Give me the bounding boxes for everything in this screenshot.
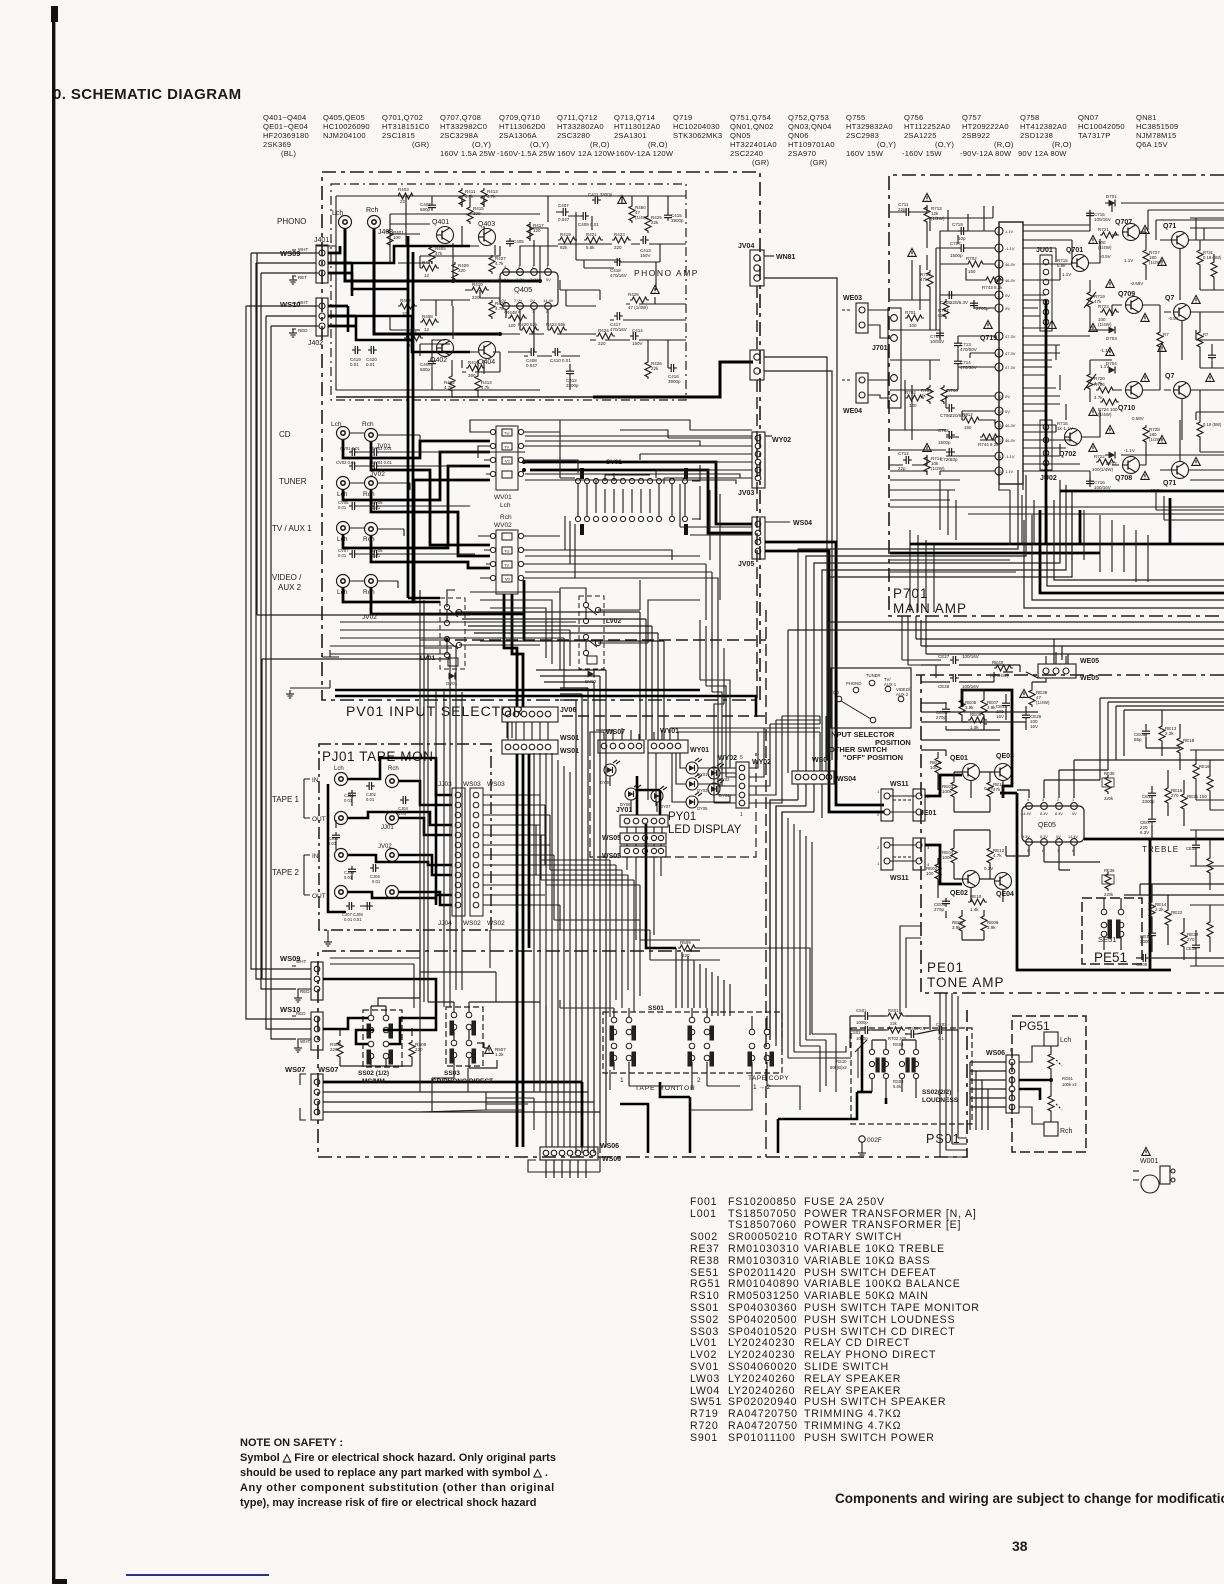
resistor R509 [678, 945, 697, 951]
capacitor C411 [592, 196, 601, 204]
wire JY01 stubs [627, 827, 662, 940]
svg-text:8.3V: 8.3V [1055, 812, 1063, 816]
node pg51 [1049, 1078, 1053, 1082]
svg-text:SS01: SS01 [648, 1005, 664, 1012]
svg-text:RS10: RS10 [836, 1059, 847, 1064]
trimmer R720 [1087, 372, 1093, 391]
switch SV01 contact bars [580, 468, 584, 479]
svg-text:0. SCHEMATIC DIAGRAM: 0. SCHEMATIC DIAGRAM [53, 86, 242, 103]
wire we05 drops from main amp [902, 616, 941, 678]
svg-text:0V: 0V [1056, 835, 1061, 839]
label Q719 [984, 320, 992, 328]
svg-text:Q6A 15V: Q6A 15V [1136, 140, 1169, 149]
svg-text:10: 10 [998, 395, 1002, 399]
svg-text:-1.1V: -1.1V [1100, 348, 1111, 353]
svg-text:2SA1225: 2SA1225 [904, 131, 937, 140]
switch SS02 (1/2) outline [363, 1010, 402, 1067]
jack TV Rch [365, 523, 378, 536]
svg-text:3900p: 3900p [668, 379, 681, 384]
wire led links [610, 753, 736, 812]
resistor R726 [1096, 387, 1115, 393]
svg-text:Rch: Rch [1060, 1128, 1073, 1135]
dashed vertical center [765, 610, 767, 1157]
jack TAPE1 IN Rch [386, 775, 399, 788]
svg-text:7: 7 [998, 307, 1000, 311]
svg-text:0.047: 0.047 [558, 217, 570, 222]
svg-text:47.3V: 47.3V [1005, 365, 1016, 370]
capacitor C716 [1086, 478, 1094, 487]
ic Q719 hybrid [999, 222, 1023, 484]
wire WE05 riser drops [1054, 639, 1068, 664]
resistor RE13 [1159, 724, 1165, 743]
svg-text:JV04: JV04 [738, 243, 754, 250]
connector WV02 [490, 530, 523, 594]
svg-text:C409 0.01: C409 0.01 [578, 222, 599, 227]
svg-text:WE03: WE03 [843, 295, 862, 302]
svg-text:-0.5?: -0.5? [1168, 316, 1179, 321]
svg-text:WS01: WS01 [560, 735, 579, 742]
resistor R701 [905, 315, 924, 321]
svg-text:0.01: 0.01 [372, 553, 381, 558]
svg-text:Q708: Q708 [1115, 475, 1132, 482]
svg-text:C712: C712 [898, 451, 909, 456]
label WN81 [764, 255, 774, 257]
capacitor CE09 [1140, 954, 1149, 962]
svg-text:J401: J401 [314, 237, 329, 244]
connector J701 [888, 308, 901, 408]
connector WE03 [856, 303, 868, 333]
svg-text:(O,Y): (O,Y) [472, 140, 491, 149]
connector JE01 a [913, 789, 925, 821]
board P701 main amp outline [889, 175, 1224, 616]
capacitor CV07 CV08 [349, 550, 358, 558]
capacitor C408 [528, 348, 537, 356]
switch SS01 tape monitor group1 [610, 1017, 636, 1066]
led DY06 [625, 784, 641, 800]
wire TV Rch route [371, 536, 490, 568]
svg-text:RE18: RE18 [1183, 738, 1195, 743]
svg-text:HC3851509: HC3851509 [1136, 122, 1178, 131]
capacitor C719 [958, 227, 967, 235]
svg-text:11: 11 [998, 455, 1002, 459]
svg-text:5.6k: 5.6k [893, 1084, 902, 1089]
svg-text:160V 1.5A 25W: 160V 1.5A 25W [440, 149, 496, 158]
svg-text:WHT: WHT [298, 247, 308, 252]
svg-text:VARIABLE 10KΩ TREBLE: VARIABLE 10KΩ TREBLE [804, 1243, 945, 1255]
jack TAPE1 IN Lch [335, 773, 348, 786]
svg-text:(R,O): (R,O) [648, 140, 668, 149]
wire main amp inner adds [890, 206, 1090, 464]
diode DV01 [449, 673, 456, 680]
svg-text:PE51: PE51 [1094, 950, 1127, 965]
resistor RE39 [1029, 688, 1035, 707]
svg-text:(R,O): (R,O) [994, 140, 1014, 149]
top transistor parts table [263, 113, 1178, 167]
capacitor C405 [506, 238, 514, 247]
resistor RE06 [959, 914, 965, 933]
svg-text:D703: D703 [1106, 336, 1117, 341]
svg-text:Rch: Rch [388, 766, 399, 772]
voltage labels main amp [1062, 254, 1179, 453]
svg-text:WV02: WV02 [494, 522, 512, 529]
svg-text:SP01011100: SP01011100 [728, 1432, 796, 1444]
svg-text:0.047: 0.047 [526, 363, 538, 368]
svg-text:3: 3 [1042, 798, 1044, 802]
connector WE05 [1046, 652, 1066, 664]
svg-text:100k: 100k [942, 855, 953, 860]
svg-text:15: 15 [998, 424, 1002, 428]
svg-text:WS11: WS11 [890, 781, 909, 788]
svg-text:WS01: WS01 [560, 748, 579, 755]
wire tone right mesh [1124, 710, 1224, 960]
svg-text:CE15: CE15 [1186, 946, 1197, 951]
svg-text:-1.1V: -1.1V [1005, 246, 1015, 251]
svg-text:RE38: RE38 [690, 1255, 720, 1267]
connector JV03 [752, 432, 765, 488]
ground tape [324, 938, 332, 946]
wire selector thick routes [343, 440, 884, 812]
svg-text:1.1V: 1.1V [1100, 364, 1109, 369]
svg-text:100(1/4W): 100(1/4W) [1092, 467, 1114, 472]
capacitor C412 [566, 368, 574, 377]
svg-text:1: 1 [1010, 1118, 1013, 1124]
svg-text:SP04020500: SP04020500 [728, 1314, 797, 1326]
svg-text:PG51: PG51 [1019, 1019, 1050, 1033]
svg-text:TUNER: TUNER [279, 477, 307, 486]
svg-text:HT332802A0: HT332802A0 [557, 122, 604, 131]
svg-text:IN: IN [312, 853, 319, 860]
switch SS03 contacts [450, 1012, 476, 1063]
resistor RE01 [935, 756, 941, 775]
svg-text:RS01: RS01 [888, 1008, 899, 1013]
svg-text:-1.1V: -1.1V [1005, 454, 1015, 459]
svg-text:2SA1306A: 2SA1306A [499, 131, 538, 140]
svg-text:Q701: Q701 [1066, 247, 1083, 254]
svg-text:HT113062D0: HT113062D0 [499, 122, 546, 131]
pins Q405 top [503, 269, 552, 310]
svg-text:R420 82k: R420 82k [518, 322, 538, 327]
switch SS01 tape copy group [748, 1029, 774, 1066]
wire main amp output nested bends [1024, 500, 1224, 608]
jack phono Lch [339, 216, 352, 229]
svg-text:WE04: WE04 [843, 408, 862, 415]
capacitor CE21 [1002, 700, 1010, 709]
svg-text:2: 2 [998, 294, 1000, 298]
svg-text:-0.58V: -0.58V [1130, 281, 1143, 286]
capacitor CV05 CV06 [349, 502, 358, 510]
svg-text:R509: R509 [680, 940, 691, 945]
resistor RE11 [987, 780, 993, 799]
svg-text:820: 820 [938, 313, 946, 318]
wire tape thick routes [328, 758, 452, 912]
svg-text:1: 1 [740, 812, 743, 818]
svg-text:RELAY CD DIRECT: RELAY CD DIRECT [804, 1337, 910, 1349]
svg-text:RE36: RE36 [1104, 771, 1115, 776]
svg-text:R719: R719 [690, 1408, 719, 1420]
svg-text:SW51: SW51 [690, 1396, 722, 1408]
svg-text:470/50V: 470/50V [960, 347, 977, 352]
svg-text:R7: R7 [1203, 332, 1209, 337]
svg-text:8.3V: 8.3V [1040, 812, 1048, 816]
svg-text:470/16V: 470/16V [610, 273, 627, 278]
svg-text:-160V-12A 120W: -160V-12A 120W [613, 149, 674, 158]
svg-text:R422 56k: R422 56k [546, 322, 566, 327]
svg-text:WS02: WS02 [487, 920, 505, 927]
svg-text:TAPE 1: TAPE 1 [272, 795, 300, 804]
resistor R421 [584, 237, 603, 243]
node phono out [538, 279, 542, 283]
svg-text:CV02 0.01: CV02 0.01 [372, 446, 392, 451]
svg-text:R744 8.2k: R744 8.2k [978, 442, 999, 447]
svg-text:1.1V: 1.1V [1062, 272, 1071, 277]
wire band below main amp [788, 616, 1224, 773]
wire phono out thick [593, 362, 753, 397]
svg-text:22p: 22p [898, 466, 906, 471]
svg-text:8.3V: 8.3V [1022, 835, 1030, 839]
label WS04 at JV05 [765, 521, 790, 523]
svg-text:L001: L001 [690, 1208, 717, 1220]
board P401 phono amp outline [331, 184, 686, 400]
svg-text:R410: R410 [472, 282, 483, 287]
svg-text:47.3V: 47.3V [1005, 334, 1016, 339]
resistor R413 [481, 188, 487, 207]
warning triangle R713 [923, 193, 931, 201]
svg-text:PV01 INPUT SELECTOR: PV01 INPUT SELECTOR [346, 703, 524, 719]
resistor RE02 [935, 862, 941, 881]
svg-text:220: 220 [330, 1047, 338, 1052]
svg-text:Components and wiring are subj: Components and wiring are subject to cha… [835, 1491, 1224, 1506]
warning triangle phono [618, 195, 626, 203]
svg-text:5.5k: 5.5k [586, 245, 595, 250]
svg-text:Lch: Lch [500, 502, 511, 509]
resistor R405 [429, 245, 435, 264]
svg-text:JY01: JY01 [616, 807, 632, 814]
svg-text:150V: 150V [640, 253, 651, 258]
connector JV04 lower [750, 350, 764, 380]
svg-text:(R,O): (R,O) [590, 140, 610, 149]
svg-text:S002: S002 [690, 1231, 718, 1243]
svg-text:100k: 100k [942, 789, 953, 794]
svg-text:0.3V: 0.3V [984, 866, 993, 871]
svg-text:2SC2983: 2SC2983 [846, 131, 879, 140]
svg-text:22k: 22k [651, 220, 659, 225]
svg-text:C405: C405 [513, 239, 524, 244]
wire ss01 thick [620, 1082, 690, 1153]
left page border [51, 6, 67, 1584]
svg-text:Q752,Q753: Q752,Q753 [788, 113, 829, 122]
svg-text:PUSH SWITCH TAPE MONITOR: PUSH SWITCH TAPE MONITOR [804, 1302, 980, 1314]
svg-text:R408: R408 [422, 314, 433, 319]
svg-text:1500p: 1500p [950, 253, 963, 258]
svg-text:Q401~Q404: Q401~Q404 [263, 113, 306, 122]
resistor R419 [558, 237, 577, 243]
svg-text:3300p: 3300p [1140, 939, 1153, 944]
svg-text:VIDEO /: VIDEO / [272, 573, 302, 582]
resistor R415 [467, 205, 473, 224]
svg-text:SP04030360: SP04030360 [728, 1302, 797, 1314]
transistor QE02 [963, 871, 980, 888]
svg-text:Q702: Q702 [1059, 451, 1076, 458]
svg-text:50k(B)x2: 50k(B)x2 [830, 1065, 847, 1070]
resistor R702 [905, 395, 924, 401]
box input selector position [831, 668, 911, 728]
wire tape thin [328, 795, 550, 938]
wire JV05 to tone amp [765, 542, 884, 805]
svg-text:WY02: WY02 [772, 437, 791, 444]
svg-text:JJ01: JJ01 [381, 825, 394, 831]
connector JU02 [1040, 420, 1052, 470]
wire phono mesh [316, 196, 686, 397]
svg-text:WE05: WE05 [1080, 675, 1099, 682]
svg-text:SS03: SS03 [444, 1070, 460, 1077]
svg-text:WHT: WHT [296, 959, 306, 964]
resistor R450 [629, 204, 635, 223]
svg-text:Any other component substit: Any other component substitution (other … [240, 1482, 555, 1494]
svg-text:14: 14 [998, 410, 1002, 414]
svg-text:TAPE 2: TAPE 2 [272, 868, 300, 877]
wire tone mesh [921, 665, 1224, 940]
svg-text:6: 6 [1010, 1048, 1013, 1054]
resistor R412 [449, 374, 455, 393]
svg-text:1.1V: 1.1V [1005, 469, 1014, 474]
transistor QE04 [995, 873, 1012, 890]
svg-text:LV01: LV01 [690, 1337, 717, 1349]
svg-text:0.18 (5W): 0.18 (5W) [1203, 255, 1222, 260]
capacitor CV03 CV04 [349, 462, 358, 470]
svg-text:QN01,QN02: QN01,QN02 [730, 122, 774, 131]
svg-text:R403: R403 [398, 187, 409, 192]
svg-text:MAIN AMP: MAIN AMP [893, 601, 967, 616]
svg-text:Q71: Q71 [1163, 223, 1176, 230]
svg-text:CD/PHONO DIRECT: CD/PHONO DIRECT [432, 1078, 493, 1085]
ground WS09 [289, 276, 297, 284]
svg-text:TV: TV [504, 445, 509, 450]
led DY01 [686, 758, 702, 774]
ground selector [286, 690, 294, 698]
svg-text:MC/MM: MC/MM [362, 1078, 385, 1085]
wire bottom long horizontals [330, 958, 800, 1130]
connector JV05 [752, 517, 765, 559]
capacitor CE04 [942, 898, 950, 907]
svg-text:3900p: 3900p [671, 218, 684, 223]
wire TUNER Rch route [371, 490, 490, 556]
svg-text:2SA1301: 2SA1301 [614, 131, 647, 140]
svg-text:2SD1238: 2SD1238 [1020, 131, 1053, 140]
wire thick output rail [1060, 490, 1224, 493]
svg-text:(O,Y): (O,Y) [935, 140, 954, 149]
block titles [322, 268, 1127, 1146]
svg-text:PY01: PY01 [668, 811, 696, 823]
svg-text:NOTE ON SAFETY :: NOTE ON SAFETY : [240, 1437, 343, 1449]
transistor Q709 [1126, 297, 1143, 314]
svg-text:100k x2: 100k x2 [1062, 1082, 1077, 1087]
svg-text:HF20369180: HF20369180 [263, 131, 309, 140]
transistor Q403 [479, 229, 496, 246]
resistor RE36 a [1105, 775, 1111, 794]
svg-text:1.1V: 1.1V [1124, 258, 1133, 263]
wire main amp output thick bend [1040, 510, 1224, 593]
resistor R414 [475, 374, 481, 393]
wire selector thin mesh [290, 420, 752, 688]
wire selector to JV05 [524, 462, 752, 524]
svg-text:QN03,QN04: QN03,QN04 [788, 122, 832, 131]
svg-text:TV / AUX 1: TV / AUX 1 [272, 524, 312, 533]
svg-text:10/50V: 10/50V [930, 339, 944, 344]
resistor R402 [398, 303, 417, 309]
wire tone right extras [1190, 750, 1224, 966]
wire loudness [850, 1016, 958, 1098]
wire SE51 [1104, 898, 1121, 950]
wire selector to JV03 lines [525, 420, 752, 648]
jack CD Lch [337, 427, 350, 440]
svg-text:HT209222A0: HT209222A0 [962, 122, 1009, 131]
capacitor C714 [954, 358, 962, 367]
svg-text:WY02: WY02 [718, 755, 737, 762]
svg-text:should be used to replace any: should be used to replace any part marke… [240, 1467, 548, 1479]
svg-text:47k: 47k [993, 787, 1001, 792]
svg-text:HC10204030: HC10204030 [673, 122, 720, 131]
wire main amp mesh [890, 203, 1224, 612]
svg-text:WHT: WHT [298, 300, 308, 305]
power plug W001 [1133, 1166, 1175, 1193]
svg-text:FUSE 2A 250V: FUSE 2A 250V [804, 1196, 885, 1208]
resistor RS01 [886, 1013, 905, 1019]
led DY08 [604, 760, 620, 776]
svg-text:22k: 22k [890, 1021, 898, 1026]
svg-text:6.3V: 6.3V [1140, 830, 1149, 835]
led DY07 [651, 786, 667, 802]
resistor R732 [1197, 330, 1203, 349]
resistor R702b [966, 261, 985, 267]
capacitor CE15 [1192, 942, 1200, 951]
ic QE05 [1022, 806, 1084, 842]
svg-text:HT109701A0: HT109701A0 [788, 140, 835, 149]
resistor R722 [1096, 459, 1115, 465]
svg-text:12: 12 [424, 273, 430, 278]
diode D703 [1109, 327, 1116, 334]
note on safety [240, 1437, 556, 1509]
capacitor CE27 [950, 656, 959, 664]
svg-text:PUSH SWITCH POWER: PUSH SWITCH POWER [804, 1432, 935, 1444]
svg-text:R428: R428 [628, 292, 639, 297]
wire SV01 drops [578, 465, 700, 519]
resistor R403 [396, 193, 415, 199]
svg-text:150V: 150V [632, 341, 643, 346]
svg-text:(GR): (GR) [412, 140, 430, 149]
svg-text:Q707: Q707 [1115, 219, 1132, 226]
trimmer R719 [1087, 290, 1093, 309]
resistor R424 [596, 333, 615, 339]
transistor QE03 [995, 764, 1012, 781]
svg-text:0.01 0.01: 0.01 0.01 [344, 917, 362, 922]
svg-text:0.01: 0.01 [338, 553, 347, 558]
svg-text:82k: 82k [560, 245, 568, 250]
svg-text:WS07: WS07 [318, 1065, 338, 1074]
svg-text:5: 5 [740, 755, 743, 761]
svg-text:R448: R448 [506, 310, 517, 315]
svg-text:IN: IN [312, 777, 319, 784]
svg-text:CV04 0.01: CV04 0.01 [372, 460, 392, 465]
capacitor C717 [1208, 352, 1216, 361]
wire WS07 loops [590, 728, 820, 756]
resistor RE10 [968, 899, 987, 905]
transistor Q404 [479, 342, 496, 359]
svg-text:RM05031250: RM05031250 [728, 1290, 800, 1302]
svg-text:22p: 22p [898, 207, 906, 212]
svg-text:10p: 10p [950, 457, 958, 462]
svg-text:100/16V: 100/16V [1094, 217, 1111, 222]
svg-text:STK3062MK3: STK3062MK3 [673, 131, 722, 140]
